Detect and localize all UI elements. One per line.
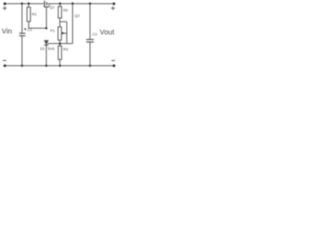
minus Vout <box>112 60 115 62</box>
plus C1 polarity <box>24 28 26 30</box>
terminal Vin+ <box>4 2 7 5</box>
capacitor C2 <box>86 4 94 66</box>
potentiometer P1 <box>58 27 67 44</box>
node dot bottom C2 <box>89 65 91 67</box>
terminal Vin- <box>4 64 7 67</box>
wire top rail <box>5 3 44 5</box>
transistor Q1 <box>44 1 50 29</box>
svg-text:Vout: Vout <box>100 27 114 36</box>
svg-text:Q2: Q2 <box>75 14 80 18</box>
svg-text:C2: C2 <box>92 33 97 37</box>
minus Vin <box>3 60 6 62</box>
svg-text:C1: C1 <box>27 28 32 32</box>
wire output sense vertical <box>72 4 74 44</box>
resistor R3 <box>58 44 61 66</box>
node dot top rail R1 <box>28 2 30 4</box>
svg-text:R2: R2 <box>63 8 68 12</box>
svg-text:5V6: 5V6 <box>48 47 54 51</box>
node dot top rail Q2 <box>72 2 74 4</box>
svg-text:R3: R3 <box>63 48 68 52</box>
node B junction <box>45 27 47 29</box>
svg-text:Vin: Vin <box>2 26 12 35</box>
svg-text:P1: P1 <box>50 29 55 33</box>
svg-text:Q1: Q1 <box>50 6 55 10</box>
node dot bottom D1 <box>45 65 47 67</box>
node dot top rail C1 <box>21 2 23 4</box>
node dot divider <box>59 43 61 45</box>
svg-text:D1: D1 <box>40 47 45 51</box>
wire mid horizontal <box>48 43 73 45</box>
wire feedback vertical <box>66 22 68 44</box>
capacitor C1 <box>19 4 25 66</box>
resistor R1 <box>27 4 30 29</box>
plus Vin <box>3 6 7 10</box>
node dot top rail R2 <box>59 2 61 4</box>
node dot bottom R3 <box>59 65 61 67</box>
node dot top rail C2 <box>89 2 91 4</box>
wire bottom rail <box>5 65 115 67</box>
wire feedback branch <box>60 21 67 23</box>
wire node B horizontal <box>29 27 47 29</box>
plus Vout <box>111 6 115 10</box>
node dot bottom C1 <box>21 65 23 67</box>
diode D1 <box>44 40 48 65</box>
terminal Vout- <box>113 64 116 67</box>
resistor R2 <box>58 4 61 27</box>
terminal Vout+ <box>113 2 116 5</box>
svg-text:R1: R1 <box>32 13 37 17</box>
